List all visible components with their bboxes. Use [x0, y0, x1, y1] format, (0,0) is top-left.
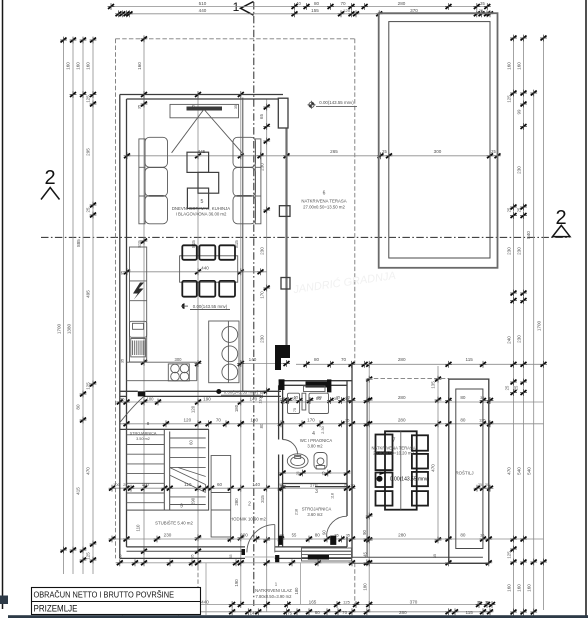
- svg-text:1380: 1380: [67, 323, 72, 334]
- svg-text:190: 190: [234, 579, 239, 587]
- terrace column lower: [281, 278, 290, 290]
- svg-text:160: 160: [66, 62, 71, 70]
- svg-text:NATKRIVENI ULAZ: NATKRIVENI ULAZ: [255, 588, 292, 593]
- electrical panel (lightning) box: [133, 283, 144, 300]
- entry door leaf: [274, 525, 276, 553]
- svg-text:3.50 m2: 3.50 m2: [136, 437, 150, 441]
- terrace edge line x=286.5: [285, 128, 287, 345]
- roof overhang outline right lower (dashed): [354, 563, 356, 605]
- svg-text:440: 440: [201, 600, 209, 605]
- bottom extension line x=300.4: [299, 563, 301, 605]
- svg-text:27.00x0.50=13.50 m2: 27.00x0.50=13.50 m2: [303, 205, 345, 210]
- right dim line C x=533.7: [533, 93, 535, 612]
- svg-text:160: 160: [517, 584, 522, 592]
- svg-text:35: 35: [191, 555, 195, 559]
- sheet left edge dark blob: [0, 596, 8, 605]
- svg-text:25: 25: [478, 483, 482, 487]
- bottom extension line x=206: [205, 563, 207, 615]
- title box divider: [32, 601, 201, 603]
- svg-text:280: 280: [399, 610, 407, 615]
- sheet left border: [2, 0, 4, 609]
- svg-text:300: 300: [175, 357, 183, 362]
- svg-text:495: 495: [86, 290, 91, 298]
- svg-text:35: 35: [345, 418, 350, 423]
- internal dim line y=562.8 ticks row: [116, 559, 123, 566]
- internal dim line y=271.8 (dining): [127, 271, 267, 273]
- svg-text:35: 35: [234, 105, 238, 109]
- internal dim y=364.3 ticks: [303, 361, 310, 368]
- svg-text:25: 25: [322, 472, 326, 476]
- terrace 7 left edge: [366, 379, 368, 557]
- section line 1 (vertical dash-dot): [253, 2, 255, 606]
- elevation marker hodnik: [216, 389, 221, 394]
- svg-text:6: 6: [323, 191, 326, 197]
- wall hall top outer y=391.3: [120, 390, 138, 392]
- entry block top wall jambs: [279, 379, 285, 390]
- entry door threshold: [245, 556, 275, 558]
- svg-text:440: 440: [199, 8, 207, 13]
- svg-text:265: 265: [330, 149, 338, 154]
- svg-text:110: 110: [136, 524, 141, 532]
- kitchen tall cabinets column: [130, 247, 147, 362]
- stair winders: [170, 468, 206, 485]
- bottom dim ticks: [119, 601, 126, 608]
- svg-text:160: 160: [527, 584, 532, 592]
- svg-text:280: 280: [398, 395, 406, 400]
- svg-text:300: 300: [434, 149, 442, 154]
- svg-text:25: 25: [296, 472, 300, 476]
- internal dim line x=266.7: [266, 99, 268, 612]
- internal dim y=402 ticks: [116, 399, 123, 406]
- svg-text:70: 70: [342, 610, 348, 615]
- terrace chair L4: [376, 491, 393, 506]
- left dim line B x=73: [72, 40, 74, 574]
- svg-text:440: 440: [201, 266, 209, 271]
- terrace 7 top edge (dashed): [367, 377, 449, 379]
- glass wall east x=242.8: [242, 98, 244, 392]
- terrace corner pier (black): [275, 345, 290, 358]
- svg-text:280: 280: [234, 498, 239, 506]
- sofa right cushion 1: [233, 137, 256, 167]
- bath mid wall: [283, 483, 347, 485]
- left dim line D x=93: [92, 40, 94, 574]
- internal dim y=488.2 ticks: [109, 485, 116, 492]
- svg-text:125: 125: [86, 95, 91, 103]
- svg-text:230: 230: [517, 247, 522, 255]
- svg-text:140: 140: [252, 482, 260, 487]
- stair top wall: [120, 428, 209, 430]
- svg-text:7.80x0.50=3.90 m2: 7.80x0.50=3.90 m2: [256, 594, 293, 599]
- svg-text:70: 70: [216, 418, 222, 423]
- svg-text:218: 218: [295, 509, 299, 515]
- kitchen counter back edge: [127, 361, 197, 363]
- elevation marker dining: [182, 303, 185, 309]
- internal dim line x=369.2: [368, 364, 370, 612]
- bath shelf: [304, 386, 326, 392]
- entry door arc: [247, 525, 275, 553]
- svg-text:80: 80: [460, 418, 466, 423]
- svg-text:35: 35: [121, 271, 125, 275]
- coffee table square 2: [198, 172, 219, 193]
- internal dim line y=423.8: [120, 423, 544, 425]
- svg-text:9: 9: [180, 504, 183, 510]
- internal dim line x=438: [437, 366, 439, 540]
- wall hall top inner y=396.4: [120, 395, 127, 397]
- svg-text:90: 90: [362, 530, 367, 535]
- internal dim line y=539 (lower row): [112, 538, 544, 540]
- internal dim line x=144: [143, 37, 145, 563]
- svg-text:295: 295: [86, 148, 91, 156]
- svg-text:120: 120: [191, 405, 196, 413]
- svg-text:0.00(143.55 mnv): 0.00(143.55 mnv): [193, 304, 228, 309]
- internal dim x=240.8 ticks: [237, 91, 244, 98]
- coffee table square 1: [187, 152, 209, 172]
- entry block bottom jambs: [279, 536, 283, 545]
- svg-text:135: 135: [431, 381, 436, 389]
- svg-text:1: 1: [275, 582, 278, 587]
- kitchen counter front edge: [127, 380, 197, 382]
- elevation marker terrace6: [309, 102, 314, 107]
- svg-text:160: 160: [507, 62, 512, 70]
- left dim line A x=63.5: [63, 40, 65, 574]
- svg-text:1: 1: [233, 0, 240, 14]
- internal dim x=144 ticks: [141, 35, 148, 42]
- svg-text:115: 115: [466, 610, 474, 615]
- svg-text:280: 280: [398, 1, 406, 6]
- svg-text:415: 415: [76, 487, 81, 495]
- terrace chair L1: [376, 435, 393, 453]
- right dim line A x=513.5: [513, 38, 515, 612]
- rostilj outer box: [449, 379, 489, 563]
- svg-text:OBRAČUN NETTO I BRUTTO POVRŠIN: OBRAČUN NETTO I BRUTTO POVRŠINE: [34, 590, 175, 600]
- svg-text:80: 80: [76, 404, 81, 410]
- island stool 3: [222, 364, 238, 380]
- svg-text:470: 470: [507, 467, 512, 475]
- svg-text:65: 65: [259, 114, 264, 119]
- terrace chair R3: [412, 472, 428, 486]
- svg-text:60: 60: [189, 440, 194, 445]
- svg-text:3.60 m2: 3.60 m2: [307, 512, 323, 517]
- svg-text:370: 370: [410, 600, 418, 605]
- svg-text:70: 70: [340, 1, 346, 6]
- section marker 2 left chevron: [41, 188, 60, 200]
- wall top inner: [127, 98, 279, 100]
- wall left outer: [119, 95, 121, 559]
- svg-text:230: 230: [164, 533, 172, 538]
- entry block top wall inner: [283, 384, 347, 386]
- washer dark back bar: [306, 382, 330, 388]
- sheet bottom dark bar: [8, 615, 588, 618]
- svg-text:230: 230: [517, 166, 522, 174]
- svg-text:80: 80: [460, 533, 466, 538]
- wall bottom inner y=546.9: [127, 546, 246, 548]
- pool outer rim: [379, 13, 498, 268]
- top dim line 2 y=13.8: [122, 13, 490, 15]
- svg-text:230: 230: [517, 335, 522, 343]
- svg-text:540: 540: [517, 467, 522, 475]
- svg-text:160: 160: [137, 62, 142, 70]
- svg-text:180: 180: [363, 583, 368, 591]
- svg-text:60: 60: [217, 482, 223, 487]
- dining chair bottom 3: [219, 281, 235, 297]
- top dim line 1 y=6.5: [111, 6, 487, 8]
- svg-text:99: 99: [517, 109, 522, 114]
- internal dim line y=155.8 (terrace/pool row): [127, 155, 498, 157]
- svg-text:1700: 1700: [537, 320, 542, 331]
- svg-text:0.00(143.55 mnv): 0.00(143.55 mnv): [224, 389, 259, 394]
- roof overhang outline bottom (dashed): [116, 562, 355, 564]
- terrace column mid: [279, 206, 290, 217]
- svg-text:180: 180: [294, 587, 299, 595]
- svg-text:510: 510: [199, 1, 207, 6]
- svg-text:STROJARNICA: STROJARNICA: [130, 432, 157, 436]
- svg-text:DNEVNI BORAVAK, KUHINJA: DNEVNI BORAVAK, KUHINJA: [172, 206, 230, 211]
- svg-text:35: 35: [346, 533, 351, 538]
- svg-text:470: 470: [431, 464, 436, 472]
- terrace table: [385, 431, 417, 509]
- kitchen cabinet divider 1: [130, 280, 147, 282]
- svg-text:120: 120: [183, 418, 191, 423]
- svg-text:100: 100: [147, 396, 155, 401]
- svg-text:55: 55: [294, 395, 299, 400]
- left dim line C x=83: [82, 40, 84, 574]
- section line 2 (horizontal dash-dot): [41, 236, 570, 238]
- svg-text:0.00(143.55 mnv): 0.00(143.55 mnv): [319, 100, 354, 105]
- wall bottom outer y=558.4: [120, 557, 245, 559]
- internal dim x=198 ticks: [195, 91, 202, 98]
- svg-text:280: 280: [398, 533, 406, 538]
- dining chair top 3: [219, 245, 235, 259]
- terrace 7 bottom edges: [352, 556, 483, 558]
- svg-text:0.00(143.55 mnv): 0.00(143.55 mnv): [390, 477, 430, 483]
- svg-text:25: 25: [123, 482, 128, 487]
- closet by stairs: [211, 456, 231, 538]
- svg-text:540: 540: [527, 467, 532, 475]
- svg-text:840: 840: [526, 231, 531, 239]
- kitchen island inner edge: [227, 321, 229, 383]
- svg-text:815: 815: [191, 240, 196, 248]
- svg-text:290: 290: [191, 497, 196, 505]
- sofa right backrest: [255, 139, 261, 224]
- terrace chair R2: [412, 454, 428, 469]
- svg-text:35: 35: [336, 396, 340, 400]
- svg-text:100: 100: [142, 482, 150, 487]
- dining chair top 2: [199, 245, 215, 259]
- bath door arc: [283, 440, 298, 455]
- svg-text:2: 2: [44, 167, 55, 189]
- svg-text:5: 5: [201, 199, 204, 205]
- svg-text:125: 125: [343, 600, 350, 605]
- svg-text:180: 180: [234, 404, 239, 412]
- internal dim line x=240.8: [240, 95, 242, 605]
- tv viewing line left: [172, 111, 203, 153]
- terrace chair L3: [376, 473, 393, 488]
- dining table: [180, 256, 238, 282]
- entry block left wall inner: [282, 385, 284, 439]
- internal dim x=438 ticks: [435, 376, 442, 383]
- elevation marker terrace: [377, 476, 383, 482]
- svg-text:80: 80: [314, 1, 320, 6]
- coffee table square 3: [187, 188, 208, 208]
- svg-text:2: 2: [248, 502, 251, 508]
- sofa left cushion 1: [145, 137, 168, 167]
- svg-text:35: 35: [480, 1, 485, 6]
- sofa right cushion 3: [233, 196, 256, 224]
- tv set (dark bar): [187, 107, 223, 111]
- svg-text:115: 115: [466, 357, 474, 362]
- svg-text:80: 80: [315, 610, 321, 615]
- svg-text:35: 35: [433, 554, 437, 558]
- svg-text:155: 155: [311, 8, 319, 13]
- svg-text:280: 280: [398, 357, 406, 362]
- svg-text:35: 35: [346, 396, 350, 400]
- svg-text:170: 170: [307, 418, 315, 423]
- kitchen island: [209, 321, 239, 383]
- svg-text:JANDRIĆ GRADNJA: JANDRIĆ GRADNJA: [291, 269, 396, 296]
- svg-text:7: 7: [393, 438, 396, 444]
- pool inner rim: [389, 22, 490, 258]
- sofa left backrest: [139, 139, 145, 224]
- svg-text:170: 170: [260, 291, 265, 299]
- wall bottom plinth line: [127, 550, 246, 552]
- svg-text:NATKRIVENA TERASA: NATKRIVENA TERASA: [301, 199, 346, 204]
- bottom dim line 1 y=604.5: [112, 604, 492, 606]
- svg-text:80: 80: [317, 395, 322, 400]
- bottom dim line 2 y=611.8: [112, 611, 492, 613]
- internal dim line y=363.5 (kitchen): [241, 363, 287, 365]
- svg-text:160: 160: [507, 584, 512, 592]
- svg-text:140: 140: [249, 396, 257, 401]
- svg-text:PRIZEMLJE: PRIZEMLJE: [34, 604, 78, 614]
- entry block right wall outer: [351, 364, 353, 558]
- svg-text:80: 80: [315, 533, 321, 538]
- section marker 2 right triangle: [553, 225, 571, 236]
- svg-text:35: 35: [118, 555, 122, 559]
- top dim ticks: [108, 3, 115, 10]
- internal dim line y=364.3 (right wing top): [296, 363, 544, 365]
- svg-text:160: 160: [86, 62, 91, 70]
- dryer: [309, 393, 329, 413]
- svg-text:STROJARNICA: STROJARNICA: [302, 507, 332, 512]
- svg-text:80: 80: [460, 395, 466, 400]
- internal dim line y=488.2 (stairs row): [112, 487, 352, 489]
- entry block right wall inner: [346, 381, 348, 516]
- svg-text:240: 240: [507, 336, 512, 344]
- dining chair bottom 1: [182, 281, 197, 297]
- strojarnica door arc: [327, 516, 348, 537]
- svg-text:160: 160: [517, 62, 522, 70]
- dim extension below wall x=198 (dashed): [197, 566, 199, 605]
- svg-text:110: 110: [258, 396, 263, 403]
- svg-text:20.40x0.50=10.20 m2: 20.40x0.50=10.20 m2: [373, 450, 414, 455]
- terrace chair L2: [376, 454, 393, 470]
- sofa right cushion 2: [233, 168, 256, 197]
- svg-text:25: 25: [505, 385, 510, 390]
- stair outer box: [127, 429, 209, 510]
- wall left inner: [126, 99, 128, 547]
- title box frame: [32, 588, 201, 615]
- roof overhang outline right upper (dashed): [354, 39, 356, 365]
- bath fixtures dim row: [283, 472, 347, 474]
- svg-text:STUBIŠTE 5.40 m2: STUBIŠTE 5.40 m2: [155, 521, 193, 526]
- sheet right border: [585, 0, 587, 616]
- island stool 2: [222, 346, 238, 362]
- svg-text:4: 4: [312, 431, 315, 437]
- svg-text:230: 230: [260, 247, 265, 255]
- dining chair bottom 2: [199, 281, 215, 297]
- svg-text:HODNIK 10.90 m2: HODNIK 10.90 m2: [230, 517, 266, 522]
- svg-text:75: 75: [293, 408, 297, 412]
- svg-text:230: 230: [260, 163, 265, 171]
- terrace table midline: [400, 431, 402, 509]
- stair mid wall: [163, 429, 165, 510]
- svg-text:70: 70: [341, 357, 347, 362]
- terrace corner column: [278, 98, 288, 128]
- section marker 1 arrowhead: [241, 2, 254, 16]
- terrace chair R1: [412, 435, 428, 450]
- svg-text:2.30: 2.30: [321, 426, 325, 433]
- svg-text:470: 470: [86, 467, 91, 475]
- internal dim line x=198: [197, 95, 199, 563]
- svg-text:25: 25: [86, 207, 91, 212]
- svg-text:190: 190: [203, 396, 211, 401]
- entry block top wall outer: [279, 380, 352, 382]
- svg-text:35: 35: [138, 105, 142, 109]
- svg-text:125: 125: [507, 551, 512, 559]
- rostilj inner box: [456, 389, 483, 549]
- right dim line B x=523.5: [523, 38, 525, 612]
- rostilj depth dim: [477, 487, 492, 489]
- svg-text:3: 3: [315, 489, 318, 495]
- svg-text:90: 90: [321, 530, 326, 535]
- svg-text:230: 230: [260, 335, 265, 343]
- svg-text:200: 200: [240, 533, 248, 538]
- svg-text:125: 125: [507, 95, 512, 103]
- left dim ticks: [60, 37, 67, 44]
- cooktop 4 burners: [168, 364, 189, 381]
- terrace chair R4: [412, 491, 428, 506]
- svg-text:180: 180: [250, 418, 258, 423]
- wall top outer: [120, 94, 283, 96]
- svg-text:35: 35: [121, 359, 125, 363]
- svg-text:1700: 1700: [57, 323, 62, 334]
- svg-text:55: 55: [292, 533, 297, 538]
- washing machine: [288, 393, 300, 413]
- island stool 1: [222, 327, 238, 343]
- svg-text:280: 280: [398, 418, 406, 423]
- svg-text:80: 80: [314, 357, 320, 362]
- entry door jamb black: [275, 555, 279, 562]
- stair treads left flight: [127, 434, 165, 436]
- fridge: [130, 321, 147, 337]
- right dim ticks: [510, 35, 517, 42]
- internal dim y=539 ticks: [109, 536, 116, 543]
- sofa left cushion 2: [145, 168, 168, 197]
- dining chair top 1: [182, 245, 197, 259]
- svg-text:I BLAGOVAONA 36.00 m2: I BLAGOVAONA 36.00 m2: [176, 212, 227, 217]
- oven with grill stripes: [131, 339, 146, 357]
- internal dim line y=402 (hall/bath row): [120, 401, 544, 403]
- internal dim y=423.8 ticks: [123, 420, 130, 427]
- entry block left wall outer: [278, 385, 280, 439]
- svg-text:315: 315: [260, 495, 265, 503]
- stair treads right flight upper: [170, 437, 206, 439]
- bath sink: [287, 454, 308, 468]
- svg-text:885: 885: [76, 239, 81, 247]
- door arc kitchen-hall: [120, 396, 143, 421]
- entry mat (striped): [302, 548, 352, 561]
- entry mat dark bar: [308, 555, 329, 560]
